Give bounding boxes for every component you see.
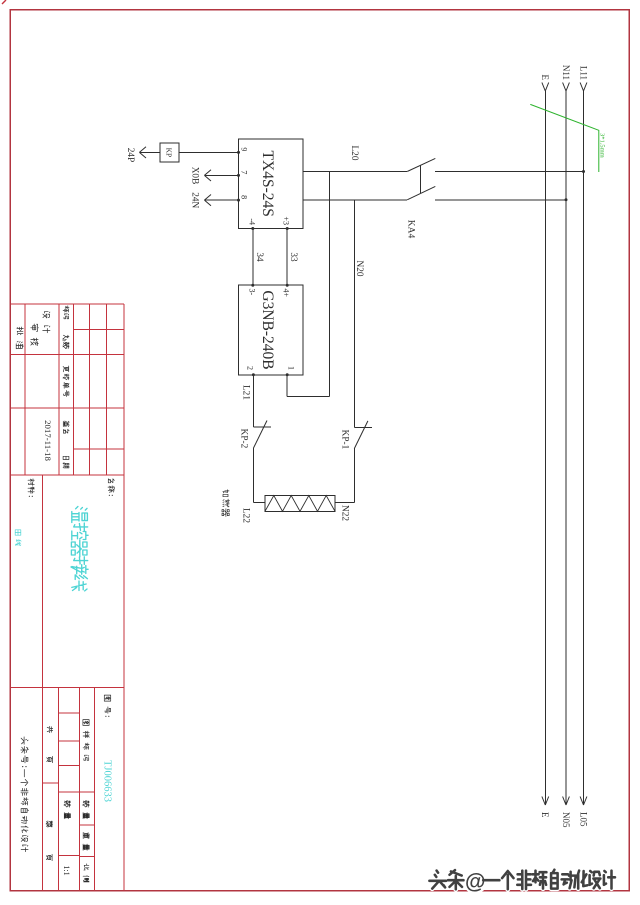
page corner mark [2,0,6,4]
drawing title 温控器接线 (cyan) [71,507,88,591]
TX4S pin +3 [282,216,291,230]
wire pin8 to 24N arrow [204,195,238,206]
wire L21: G3NB pin2 to KP-2 contact [252,375,254,427]
power rail L11 [580,83,587,806]
TX4S pin 8 [237,195,249,202]
wire N20: N11 rail to KA4 contact [435,198,568,201]
label 34 [254,252,264,262]
label 数量 (header) [83,801,89,819]
KA4 mechanical link line [419,165,421,193]
TX4S pin 7 [237,170,249,177]
label L05 (right) [578,812,588,827]
label 重量 (header) [83,832,89,850]
revision header 标记 [63,306,69,319]
row label 批准 [16,327,23,349]
wire from KA4 contact b to TX4S pin (top) [303,199,407,201]
solid state relay G3NB-240B box [239,285,304,375]
heater element (resistor box with zigzag) [265,496,335,512]
label heater 加热器 [222,490,230,517]
label 数量 (row 2) [64,801,70,819]
G3NB pin 4+ [282,284,291,298]
G3NB pin 3- [247,284,256,296]
label L21 [241,385,251,400]
label L20 [349,146,359,161]
label X0B [190,167,200,185]
KA4 contact a (on L20 wire) [407,158,435,171]
wire KP box to 24P arrow [139,147,160,158]
label N22 [340,505,350,521]
wire KP-1 to heater (N22) [335,449,354,503]
wire 33: TX4S +3 to G3NB 4+ [286,229,288,286]
title block grid lines [10,304,124,891]
TX4S pin -4 [247,218,256,230]
label 名称: [108,479,115,496]
design date 2017-11-18 [43,420,53,461]
drawing number TJ006633 (cyan) [102,760,113,802]
scale value 1:1 [62,865,71,875]
label E (left) [540,75,550,81]
wire KP-2 to heater (L22) [253,448,265,502]
label L22 [241,508,251,523]
row label 设计 [43,312,50,333]
label N11 (left) [561,65,571,80]
thermo switch KP-1 [354,421,372,449]
G3NB pin 2 [246,366,255,376]
G3NB pin 1 [286,366,296,376]
power rail N11 [563,83,570,806]
cable marker 3*1.5mm (green slash) [530,104,605,172]
label 材料: [28,479,34,497]
label 比例 (header) [83,864,89,882]
wire pin7 to X0B arrow [204,170,238,181]
KA4 contact b (on N20 wire) [407,186,435,199]
wire G3NB pin1 loop to L20 wire [287,172,330,397]
label 24N [190,192,200,208]
revision header 签名 [63,421,69,433]
label 33 [288,252,298,262]
wire N20: branch from N wire to KP-1 contact [353,200,355,428]
label KP-1 [340,430,350,450]
row label 审核 [31,324,39,346]
label L11 (left) [578,66,588,80]
label KA4 [406,220,416,239]
power rail E [542,83,549,806]
label 图号: [104,695,110,717]
terminal KP box [160,143,179,162]
material value (cyan) [15,530,21,546]
label 图样标记 [83,720,89,761]
label 第页 [46,821,52,861]
revision header 处数 [63,335,69,348]
wire L20: L11 rail to KA4 contact [435,170,585,173]
label 24P [125,148,135,162]
label KP-2 [239,429,249,449]
label 共页 [47,726,53,762]
wire from KA4 contact a to TX4S pin (top) [303,171,407,173]
watermark 头条 @一个非标自动化设计 [429,870,615,894]
svg-text:@: @ [465,871,485,894]
note 头条号：一个非标自动化设计 [21,737,29,852]
wire 34: TX4S -4 to G3NB 3- [252,229,254,286]
revision header 更改单号 [63,366,69,397]
wire pin9 to KP box [179,151,239,153]
revision header 日期 [63,456,69,468]
label E (right) [540,812,550,818]
TX4S pin 9 [237,147,249,154]
temperature controller TX4S-24S box [239,139,304,229]
label N05 (right) [561,812,571,828]
thermo switch KP-2 [253,421,271,449]
label N20 [354,260,364,276]
